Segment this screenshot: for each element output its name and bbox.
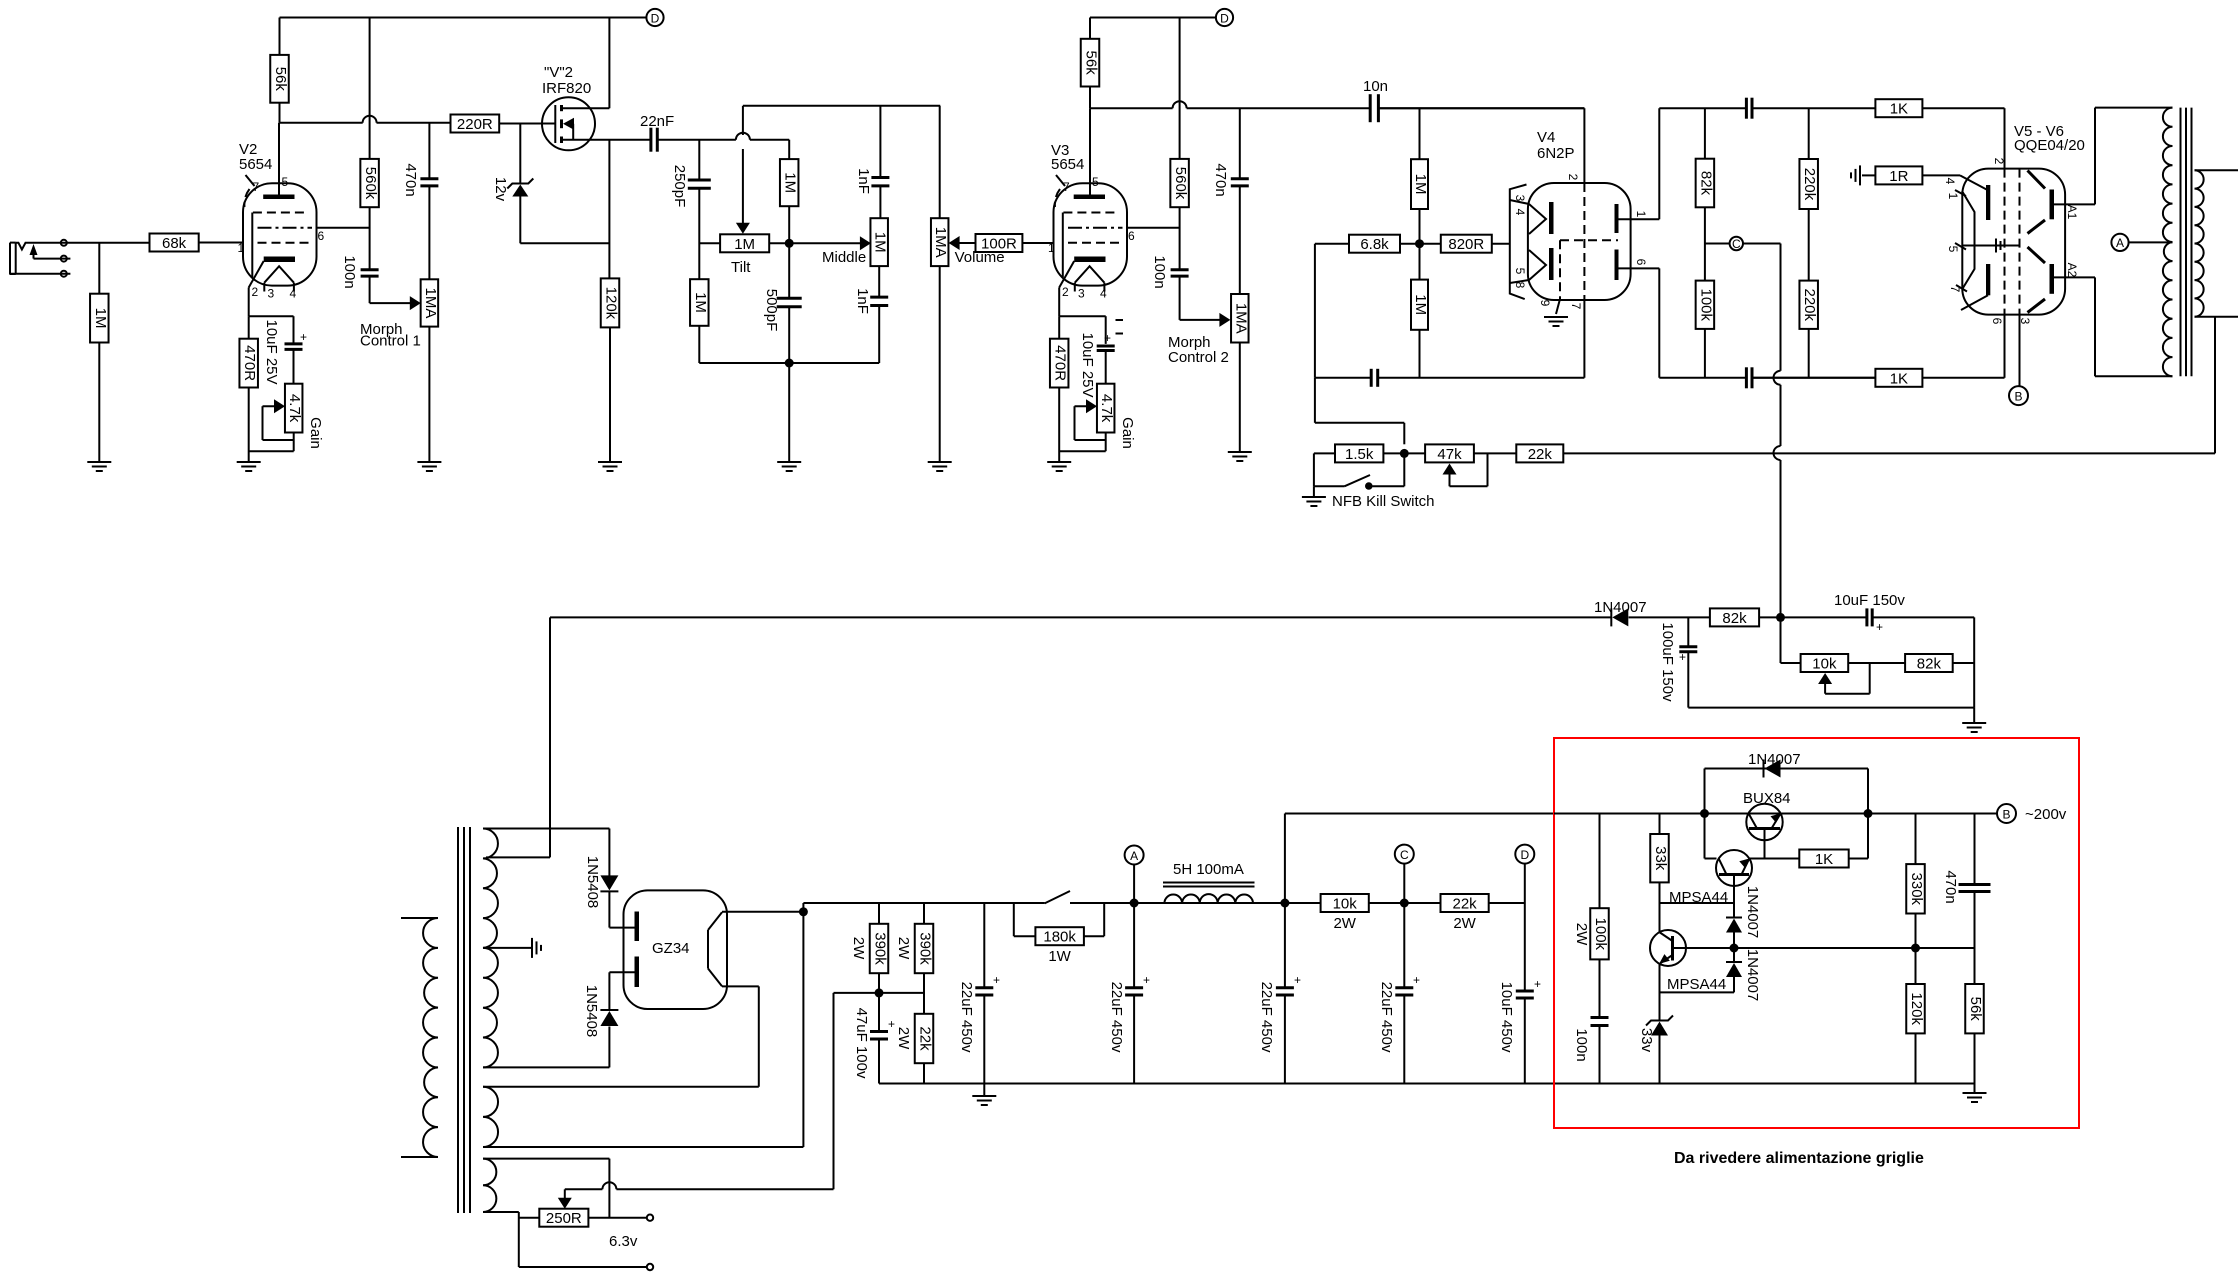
V2 5654 internal suppressor strap	[251, 213, 253, 278]
HT bottom lead	[483, 1066, 609, 1068]
svg-text:47k: 47k	[1437, 446, 1462, 463]
ground (regulator)	[1974, 1084, 1976, 1093]
svg-text:4: 4	[290, 287, 297, 301]
diode 1N4007 (lower level shift)	[1733, 948, 1735, 962]
svg-text:V4: V4	[1537, 129, 1555, 146]
PT 5V winding	[483, 1087, 498, 1147]
wire base sense line	[1686, 947, 1916, 949]
capacitor 10uF 450v (D node)	[1524, 903, 1526, 991]
svg-text:12v: 12v	[492, 177, 509, 202]
svg-text:470R: 470R	[241, 345, 258, 381]
svg-text:82k: 82k	[1697, 171, 1714, 196]
node dot choke output	[1280, 899, 1289, 908]
PT HT secondary coil	[483, 829, 498, 1068]
svg-text:"V"2: "V"2	[544, 64, 573, 81]
transistor BUX84 (series pass)	[1746, 804, 1782, 840]
svg-text:8: 8	[1513, 282, 1527, 289]
svg-text:100n: 100n	[1151, 255, 1168, 288]
svg-text:+: +	[888, 1017, 895, 1031]
svg-text:22k: 22k	[917, 1026, 934, 1051]
V4 lower triode grid zigzag	[1529, 250, 1546, 280]
wire divider node	[834, 992, 925, 994]
V3 5654 cathode bar (pin 2)	[1074, 257, 1105, 263]
svg-text:82k: 82k	[1722, 610, 1747, 627]
svg-text:4: 4	[1513, 209, 1527, 216]
svg-text:56k: 56k	[1083, 51, 1100, 76]
terminal B (200v out)	[1997, 804, 2016, 823]
svg-text:2: 2	[1566, 174, 1580, 181]
svg-text:100R: 100R	[981, 236, 1017, 253]
GZ34 cathode top lead to B+ node	[722, 911, 803, 913]
resistor 1K (grid stopper upper)	[1875, 99, 1922, 117]
svg-text:+: +	[1679, 650, 1686, 664]
svg-text:390k: 390k	[917, 932, 934, 965]
svg-text:1nF: 1nF	[855, 168, 872, 194]
diode 1N4007 (BUX84 bypass)	[1704, 769, 1706, 814]
node dot C filter	[1400, 899, 1409, 908]
svg-text:6.3v: 6.3v	[609, 1233, 638, 1250]
node dot GZ34 output	[799, 907, 808, 916]
resistor 220k upper (cross-couple)	[1808, 108, 1810, 159]
svg-text:500pF: 500pF	[763, 289, 780, 332]
svg-text:7: 7	[1569, 303, 1583, 310]
output transformer core	[2180, 108, 2182, 377]
V4 left bracket (pins 3 4 5 8)	[1510, 185, 1527, 300]
svg-text:1MA: 1MA	[422, 288, 439, 319]
resistor 1M (V4 grid leak upper)	[1419, 108, 1421, 159]
node dot regulator left	[1700, 809, 1709, 818]
potentiometer 1MA Volume	[939, 106, 941, 218]
svg-text:C: C	[1400, 848, 1409, 862]
V4 upper cathode bar	[1549, 202, 1554, 234]
diode 1N4007 (preamp supply rectifier)	[1610, 608, 1612, 626]
svg-text:33k: 33k	[1652, 846, 1669, 871]
svg-text:2: 2	[252, 285, 259, 299]
svg-text:2W: 2W	[1333, 915, 1356, 932]
svg-text:6N2P: 6N2P	[1537, 145, 1575, 162]
svg-text:1K: 1K	[1815, 851, 1833, 868]
svg-text:1K: 1K	[1890, 101, 1908, 118]
wire HT tap to bias rail	[486, 856, 550, 858]
capacitor 10uF 150v	[1865, 608, 1868, 626]
wire C to preamp supply node with hops	[1780, 244, 1782, 371]
NFB branch vertical wire	[1314, 244, 1316, 378]
5V winding bottom lead to B+ node	[483, 1146, 803, 1148]
wire 10n to V4 grid pin 2	[1378, 107, 1584, 109]
resistor 120k (source load)	[601, 278, 620, 327]
wire error amp collector	[1659, 903, 1661, 932]
svg-text:1K: 1K	[1890, 370, 1908, 387]
ground (preamp supply)	[1973, 708, 1975, 722]
wire V2 grid2 pin 6 to 560k/100n node	[317, 227, 370, 229]
supply bottom wire	[1688, 707, 1974, 709]
resistor 1K (BUX84 B-E)	[1799, 850, 1848, 868]
node dot V4 divider	[1415, 239, 1424, 248]
NFB kill switch	[1313, 453, 1315, 486]
svg-text:56k: 56k	[1967, 997, 1984, 1022]
V3 5654 heater filament with pins 3 4	[1075, 266, 1105, 283]
resistor 220k lower (cross-couple)	[1799, 281, 1818, 329]
svg-text:QQE04/20: QQE04/20	[2014, 137, 2085, 154]
resistor 470R (V2 cathode)	[239, 339, 258, 388]
ground (120k)	[598, 461, 622, 463]
svg-text:1M: 1M	[1412, 174, 1429, 195]
ground bottom rail	[879, 1083, 1975, 1085]
svg-text:GZ34: GZ34	[652, 940, 690, 957]
capacitor 470n (sense)	[1974, 814, 1976, 885]
V2 5654 pin 7 tick	[246, 175, 255, 186]
svg-text:10uF 150v: 10uF 150v	[1834, 592, 1905, 609]
resistor 82k (divider)	[1905, 654, 1953, 672]
svg-text:NFB Kill Switch: NFB Kill Switch	[1332, 493, 1435, 510]
capacitor 470n (V2)	[420, 177, 438, 180]
svg-text:100n: 100n	[341, 255, 358, 288]
svg-text:5: 5	[1092, 175, 1099, 189]
diode 1N5408 upper	[608, 829, 610, 876]
svg-text:1MA: 1MA	[1232, 303, 1249, 334]
V3 5654 anode plate bar (pin 5)	[1074, 195, 1105, 200]
V2 5654 grid 3 dashed row	[253, 212, 308, 214]
tube V3 5654 envelope	[1054, 183, 1128, 285]
svg-text:2: 2	[1992, 158, 2006, 165]
V5V6 pin ticks	[1955, 190, 1966, 196]
tube GZ34 envelope	[624, 890, 728, 1009]
wire D rail top (V2)	[280, 17, 647, 19]
wire input to 68k	[73, 242, 150, 244]
resistor 82k (upper PI load)	[1704, 108, 1706, 159]
resistor 56k (V3 anode load)	[1089, 18, 1091, 39]
resistor 120k (sense lower)	[1915, 948, 1917, 984]
resistor 22k 2W (bias divider c)	[915, 1014, 934, 1063]
svg-text:220k: 220k	[1801, 288, 1818, 321]
node dot regulator right	[1864, 809, 1873, 818]
wire junction to Middle pot arrow	[789, 242, 862, 244]
svg-text:820R: 820R	[1448, 236, 1484, 253]
V3 5654 grid 2 dash-dot row (pin 6)	[1068, 227, 1123, 229]
capacitor 100n (regulator)	[1591, 1016, 1609, 1019]
resistor 390k 2W (bias divider a)	[878, 903, 880, 924]
PT 6.3V winding	[483, 1159, 496, 1212]
V2 anode lead wire	[278, 123, 280, 195]
resistor 1M (input grid leak)	[98, 243, 100, 294]
potentiometer 10k (supply divider)	[1780, 617, 1782, 663]
terminal circle 6.3v upper	[647, 1215, 653, 1221]
V3 cathode bottom wire	[1059, 450, 1106, 452]
svg-text:22k: 22k	[1528, 446, 1553, 463]
svg-text:470n: 470n	[1212, 163, 1229, 196]
wire 1R to tube pin 4	[1922, 174, 1960, 176]
V4 lower cathode bar	[1549, 248, 1554, 280]
capacitor 22nF (coupling)	[649, 128, 652, 152]
svg-text:1M: 1M	[1412, 294, 1429, 315]
humdinger reference wire with hop	[833, 993, 835, 1189]
choke 5H 100mA	[1164, 894, 1253, 903]
svg-text:180k: 180k	[1043, 929, 1076, 946]
resistor 180k 1W (standby bleed)	[1013, 903, 1015, 936]
node dot tone bottom	[785, 359, 794, 368]
diode 1N5408 lower	[608, 1027, 610, 1068]
resistor 100k (lower PI load)	[1696, 281, 1715, 329]
svg-text:1: 1	[1048, 241, 1055, 255]
V5V6 lower anode bar A2	[2050, 264, 2055, 294]
wire MOSFET drain to D rail	[608, 18, 610, 109]
GZ34 cathode	[707, 930, 709, 969]
svg-text:2W: 2W	[895, 1027, 912, 1050]
wire sense line right leg	[1916, 947, 1975, 949]
svg-text:220k: 220k	[1801, 168, 1818, 201]
svg-text:Da rivedere alimentazione grig: Da rivedere alimentazione griglie	[1674, 1150, 1924, 1167]
V2 5654 grid 2 dash-dot row (pin 6)	[258, 227, 313, 229]
svg-text:100uF 150v: 100uF 150v	[1659, 622, 1676, 702]
svg-text:6: 6	[1990, 318, 2004, 325]
wire 33k to driver base	[1660, 902, 1735, 904]
capacitor coupling upper (to 1K grid)	[1745, 98, 1748, 119]
svg-text:10uF 25V: 10uF 25V	[263, 319, 280, 384]
resistor 1M (tone, lower left)	[690, 279, 709, 326]
wire D rail top (V3)	[1090, 17, 1216, 19]
resistor 100R	[976, 234, 1023, 252]
capacitor 47uF 100v	[878, 993, 880, 1032]
svg-text:1.5k: 1.5k	[1345, 446, 1374, 463]
V5V6 dashed separators	[2004, 169, 2006, 315]
svg-text:1: 1	[238, 241, 245, 255]
zener diode 33v	[1646, 1016, 1673, 1026]
svg-text:~200v: ~200v	[2025, 806, 2067, 823]
svg-text:560k: 560k	[362, 167, 379, 200]
regulator rail B+	[1554, 813, 1997, 815]
resistor 390k 2W (bias divider b)	[923, 903, 925, 924]
V5V6 lower grid bar	[1986, 264, 1990, 295]
V3 5654 pin 7 dashed stub	[1055, 189, 1060, 207]
ground (tone stack)	[777, 461, 801, 463]
potentiometer 1MA Morph Control 1	[428, 123, 430, 179]
resistor 820R (V4 cathode bias)	[1441, 235, 1492, 253]
svg-text:1M: 1M	[782, 172, 799, 193]
svg-text:Tilt: Tilt	[731, 259, 751, 276]
HT top lead	[483, 828, 609, 830]
wire V3 anode to 10n with hop over 560k drop	[1090, 107, 1173, 109]
wire 100R to Volume wiper arrow	[957, 242, 976, 244]
terminal A (OPT centre tap)	[2111, 234, 2128, 251]
svg-text:1nF: 1nF	[854, 288, 871, 314]
capacitor 22uF 450v (first filter)	[983, 903, 985, 988]
svg-text:1: 1	[1946, 193, 1960, 200]
svg-text:47uF 100v: 47uF 100v	[853, 1008, 870, 1079]
svg-text:120k: 120k	[1908, 992, 1925, 1025]
resistor 82k (supply dropper)	[1710, 608, 1759, 626]
svg-text:D: D	[1220, 12, 1229, 26]
svg-text:82k: 82k	[1917, 656, 1942, 673]
terminal D (V2 supply)	[646, 9, 663, 26]
wire A1 to OPT	[2054, 203, 2095, 205]
V3 5654 grid 3 dashed row	[1063, 212, 1118, 214]
svg-text:+: +	[1876, 620, 1883, 634]
resistor 250R humdinger	[539, 1209, 588, 1227]
V3 cathode network wires	[1058, 288, 1060, 317]
V4 pin6 anode lead down	[1619, 267, 1660, 269]
wire MOSFET source down	[608, 140, 610, 279]
capacitor 22uF 450v (A node)	[1133, 903, 1135, 988]
svg-text:330k: 330k	[1908, 873, 1925, 906]
node dot preamp supply	[1776, 613, 1785, 622]
ground (first filter)	[983, 1084, 985, 1096]
V2 cathode network wires	[248, 288, 250, 317]
resistor 560k (morph feed) hanging from D rail	[369, 18, 371, 159]
node dot bias divider	[875, 988, 884, 997]
V4 left top wire	[1378, 107, 1584, 109]
svg-text:A1: A1	[2065, 205, 2079, 220]
resistor 220R (MOSFET gate)	[451, 115, 500, 133]
terminal circle 6.3v lower	[647, 1264, 653, 1270]
resistor 1.5k (NFB)	[1335, 444, 1383, 462]
V4 center dashed separator	[1583, 183, 1585, 300]
OPT secondary NFB tap wire	[2214, 317, 2216, 454]
resistor 6.8k (NFB to cathode)	[1349, 235, 1400, 253]
svg-text:3: 3	[1078, 287, 1085, 301]
V3 anode lead wire	[1089, 108, 1091, 194]
OPT secondary bottom lead	[2195, 316, 2238, 318]
svg-text:5654: 5654	[1051, 156, 1084, 173]
V2 5654 anode plate bar (pin 5)	[263, 195, 294, 200]
svg-text:1: 1	[1634, 211, 1648, 218]
potentiometer 1MA Morph Control 2	[1239, 108, 1241, 179]
V2 5654 grid 1 dashed row (pin 1)	[258, 242, 310, 244]
node dot sense divider	[1911, 944, 1920, 953]
humdinger wiper arrow	[564, 1189, 566, 1203]
V3 5654 internal suppressor strap	[1062, 213, 1064, 278]
capacitor 22uF 450v (choke node)	[1284, 903, 1286, 988]
V3 5654 pin 7 tick	[1056, 175, 1065, 186]
NFB wire to output transformer secondary	[1563, 452, 2215, 454]
svg-text:MPSA44: MPSA44	[1667, 976, 1726, 993]
ground (input)	[87, 461, 111, 463]
transistor V2 IRF820 MOSFET	[542, 97, 595, 150]
svg-text:Middle: Middle	[822, 249, 866, 266]
svg-text:5: 5	[1946, 246, 1960, 253]
resistor 56k (sense)	[1974, 948, 1976, 984]
terminal D (V3 supply)	[1216, 9, 1233, 26]
svg-text:1M: 1M	[872, 232, 889, 253]
svg-text:9: 9	[1538, 300, 1552, 307]
potentiometer 1M Middle	[870, 218, 888, 266]
svg-text:+: +	[993, 973, 1000, 987]
svg-text:1R: 1R	[1889, 168, 1908, 185]
ground (NFB switch)	[1313, 486, 1315, 496]
svg-text:470n: 470n	[402, 163, 419, 196]
V4 pin1 anode lead up to output node	[1619, 218, 1660, 220]
ground (Morph 1 pot)	[417, 461, 441, 463]
resistor 1K (grid stopper lower)	[1875, 369, 1922, 387]
resistor 56k (V2 anode load)	[279, 18, 281, 55]
capacitor 500pF	[788, 243, 790, 298]
V4 internal dashed screen	[1560, 239, 1618, 241]
svg-text:3: 3	[268, 287, 275, 301]
tube V4 6N2P envelope	[1528, 183, 1631, 300]
svg-text:+: +	[1534, 977, 1541, 991]
capacitor 1nF upper	[879, 106, 881, 178]
V5V6 pin5 beam plate line with ticks	[1962, 245, 2019, 247]
HT centre ground	[483, 947, 531, 949]
svg-text:BUX84: BUX84	[1743, 790, 1791, 807]
GZ34 cathode bottom lead to 5V winding	[722, 985, 759, 987]
svg-text:B: B	[2014, 390, 2022, 404]
svg-text:22k: 22k	[1453, 896, 1478, 913]
node dot NFB	[1400, 449, 1409, 458]
transistor MPSA44 lower (error amp)	[1650, 930, 1686, 966]
svg-text:+: +	[1413, 973, 1420, 987]
svg-text:2W: 2W	[1573, 923, 1590, 946]
wire zener to source rail	[520, 242, 609, 244]
tube V5-V6 QQE04/20 envelope	[1962, 169, 2065, 315]
svg-text:4: 4	[1943, 178, 1957, 185]
node dot A filter	[1130, 899, 1139, 908]
svg-text:A2: A2	[2065, 263, 2079, 278]
wire 68k to V2 grid pin 1	[199, 242, 243, 244]
resistor 100k 2W (input bleed)	[1599, 814, 1601, 909]
svg-text:2W: 2W	[895, 937, 912, 960]
wire 100R to V3 grid	[1022, 242, 1053, 244]
svg-text:B: B	[2002, 808, 2010, 822]
V2 5654 pin 7 dashed stub	[244, 189, 249, 207]
V5V6 cathode polyline	[1962, 191, 1975, 290]
wire A2 to OPT	[2054, 276, 2095, 278]
resistor 470R (V3 cathode)	[1050, 339, 1069, 388]
svg-text:470R: 470R	[1052, 345, 1069, 381]
svg-text:1M: 1M	[92, 308, 109, 329]
tone stack top wire (tilt wiper rail)	[743, 105, 940, 107]
wire 100n to Morph pot 2 arrow	[1180, 319, 1226, 321]
capacitor coupling lower	[1745, 367, 1748, 388]
standby switch	[1045, 891, 1070, 903]
svg-text:3: 3	[1513, 195, 1527, 202]
resistor 22k 2W (D dropper)	[1441, 894, 1489, 912]
svg-text:1M: 1M	[734, 236, 755, 253]
ground (1R) rotated	[1862, 174, 1875, 176]
capacitor 1nF lower	[878, 266, 880, 297]
wire 220R to gate	[499, 123, 555, 125]
svg-text:22uF 450v: 22uF 450v	[1108, 982, 1125, 1053]
terminal B below tube	[2019, 315, 2021, 386]
resistor 68k (grid stopper)	[150, 234, 199, 252]
potentiometer 4.7k Gain (V3)	[1097, 384, 1115, 433]
GZ34 plate leads	[609, 927, 634, 929]
V4 anode top wire to coupling cap	[1659, 107, 1746, 109]
svg-text:D: D	[651, 12, 660, 26]
V4 lower anode bar pin 6	[1615, 250, 1619, 281]
wire 100n to Morph pot 1 wiper arrow	[370, 302, 416, 304]
capacitor NFB blocking	[1315, 377, 1371, 379]
resistor 22k (NFB)	[1516, 444, 1563, 462]
6.3V bottom lead	[483, 1211, 519, 1213]
svg-text:+: +	[1143, 973, 1150, 987]
capacitor 100n (V2 morph)	[361, 268, 379, 271]
V5V6 lower pin4-like diagonal	[1961, 295, 1988, 310]
svg-text:7: 7	[253, 180, 260, 194]
svg-text:1N4007: 1N4007	[1744, 886, 1761, 939]
svg-text:+: +	[1104, 331, 1111, 345]
resistor 33k	[1659, 814, 1661, 835]
V2 cathode bottom wire	[249, 450, 294, 452]
supply divider right wire	[1973, 617, 1975, 707]
svg-text:56k: 56k	[272, 67, 289, 92]
wire V2 anode to 220R with hop over 560k drop	[280, 122, 363, 124]
svg-text:2W: 2W	[850, 937, 867, 960]
potentiometer 47k (NFB depth)	[1425, 444, 1474, 462]
capacitor 10uF 25V (V3 cathode bypass)	[1097, 345, 1115, 348]
wire diode to emitter	[1660, 991, 1735, 993]
resistor 560k (morph 2 feed)	[1179, 18, 1181, 159]
resistor 330k (sense upper)	[1915, 814, 1917, 865]
